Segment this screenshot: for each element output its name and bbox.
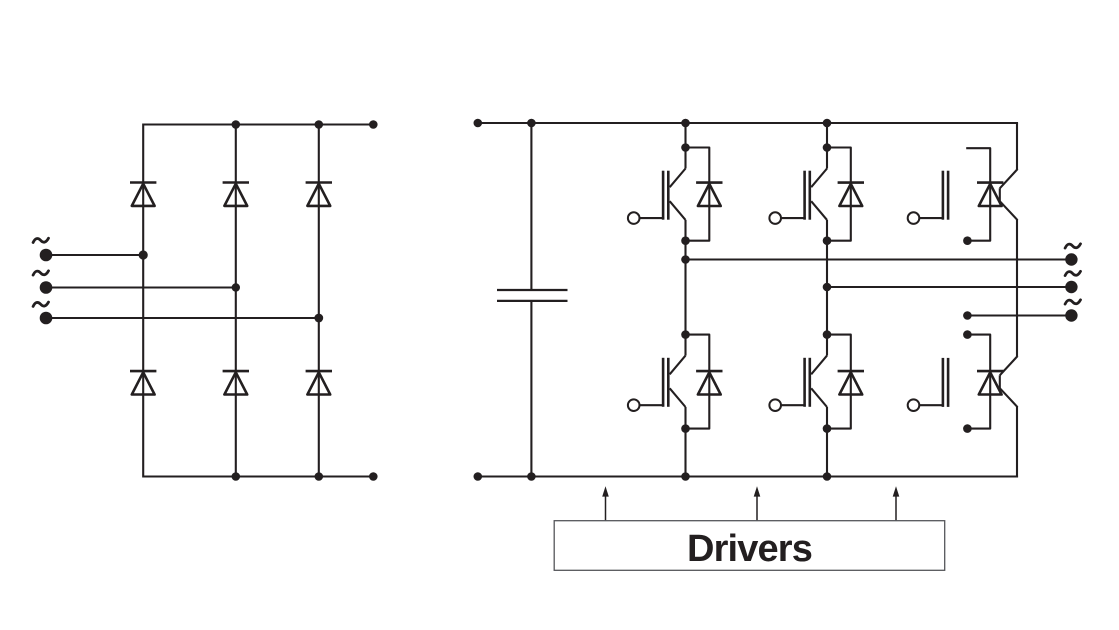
node: leg1 upper collector junction xyxy=(681,143,690,152)
drivers block box xyxy=(554,521,945,571)
diode D1 (rectifier upper) xyxy=(130,183,156,206)
IGBT Q5 (lower leg2) xyxy=(805,335,827,428)
wire: phase V output line xyxy=(827,286,1071,288)
IGBT Q6 (lower leg3, mirrored) xyxy=(943,356,1018,407)
diode D10 (antiparallel, lower leg1) xyxy=(696,371,722,394)
wire: leg2 top drop to collector xyxy=(826,123,828,148)
diode D9 (antiparallel, upper leg3) xyxy=(977,183,1003,206)
node: leg2 upper emitter junction xyxy=(823,236,832,245)
node: leg2 phase midpoint xyxy=(823,283,832,292)
node: rectifier DC+ output terminal xyxy=(369,120,378,129)
node: rectifier DC- output terminal xyxy=(369,472,378,481)
wire: leg2 midpoint down to lower collector xyxy=(826,287,828,335)
label: ~ phase W xyxy=(1065,300,1080,304)
wire: AC phase L1 input line xyxy=(46,254,143,256)
wire: leg1 midpoint down to lower collector xyxy=(684,260,686,335)
phase W output terminal xyxy=(1065,309,1077,321)
AC terminal L1 xyxy=(40,249,53,262)
diode D3 (rectifier upper) xyxy=(306,183,332,206)
node: junction L1 to left leg xyxy=(139,250,148,259)
wire: rectifier DC- bottom rail xyxy=(143,475,373,477)
AC terminal L3 xyxy=(40,312,53,325)
IGBT Q1 (upper leg1) xyxy=(663,148,685,241)
driver signal arrow 3 xyxy=(893,486,900,521)
node: leg2 upper collector junction xyxy=(823,143,832,152)
gate terminal of Q6 xyxy=(908,399,944,411)
gate terminal of Q5 xyxy=(769,399,805,411)
wire: collector stub upper leg3 xyxy=(966,148,990,241)
diode D2 (rectifier upper) xyxy=(223,183,249,206)
wire: freewheel branch upper leg1 xyxy=(686,148,710,241)
wire: freewheel branch upper leg2 xyxy=(827,148,851,241)
node: leg2 DC- junction xyxy=(823,472,832,481)
wire: leg3 rail drop to DC- (emitter Q6) xyxy=(1016,407,1018,478)
node: leg1 DC+ junction xyxy=(681,119,690,128)
node: leg2 lower emitter junction xyxy=(823,424,832,433)
node: bottom rail junction right leg xyxy=(315,472,324,481)
node: leg2 lower collector junction xyxy=(823,330,832,339)
node: capacitor to DC- rail xyxy=(527,472,536,481)
IGBT Q3 (upper leg3, mirrored) xyxy=(943,169,1018,220)
capacitor C1 plates xyxy=(497,290,568,301)
node: leg1 upper emitter junction xyxy=(681,236,690,245)
diode D7 (antiparallel, upper leg1) xyxy=(696,183,722,206)
node: lower leg3 collector stub terminal xyxy=(963,330,972,339)
node: lower leg3 emitter stub terminal xyxy=(963,424,972,433)
svg-text:Drivers: Drivers xyxy=(687,528,812,570)
wire: rectifier right leg vertical xyxy=(318,125,320,477)
diode D11 (antiparallel, lower leg2) xyxy=(838,371,864,394)
diode D5 (rectifier lower) xyxy=(223,371,249,394)
wire: phase U output line xyxy=(686,258,1072,260)
wire: inverter DC+ rail xyxy=(478,122,1018,124)
node: leg1 lower emitter junction xyxy=(681,424,690,433)
node: leg1 phase midpoint xyxy=(681,255,690,264)
diode D8 (antiparallel, upper leg2) xyxy=(838,183,864,206)
label: ~ AC symbol L2 xyxy=(33,271,48,275)
phase U output terminal xyxy=(1065,253,1077,265)
wire: leg2 emitter to midpoint xyxy=(826,241,828,287)
node: junction L2 to middle leg xyxy=(232,283,240,291)
node: junction L3 to right leg xyxy=(314,314,323,323)
gate terminal of Q4 xyxy=(628,399,664,411)
label: ~ AC symbol L3 xyxy=(33,302,48,306)
wire: collector stub lower leg3 xyxy=(967,335,990,429)
driver signal arrow 2 xyxy=(754,486,761,521)
gate terminal of Q2 xyxy=(769,212,805,224)
wire: leg1 top drop to collector xyxy=(684,123,686,148)
wire: leg1 emitter to DC- rail xyxy=(684,429,686,477)
wire: phase W output line xyxy=(967,314,1071,316)
node: bottom rail junction middle leg xyxy=(232,472,241,481)
gate terminal of Q1 xyxy=(628,212,664,224)
node: phase W tap xyxy=(963,311,972,320)
wire: AC phase L3 input line xyxy=(46,317,319,319)
node: leg2 DC+ junction xyxy=(823,119,832,128)
wire: leg3 rail upper-to-lower section xyxy=(1016,220,1018,356)
wire: leg1 emitter to midpoint xyxy=(684,241,686,260)
node: top rail junction middle leg xyxy=(232,120,241,129)
gate terminal of Q3 xyxy=(908,212,944,224)
driver signal arrow 1 xyxy=(602,486,609,521)
phase V output terminal xyxy=(1065,281,1077,293)
node: capacitor to DC+ rail xyxy=(527,119,536,128)
wire: rectifier left leg vertical xyxy=(142,124,144,478)
diode D4 (rectifier lower) xyxy=(130,371,156,394)
label: ~ phase U xyxy=(1065,244,1080,248)
node: leg1 DC- junction xyxy=(681,472,690,481)
IGBT Q4 (lower leg1) xyxy=(663,335,685,428)
diode D6 (rectifier lower) xyxy=(306,371,332,394)
node: leg1 lower collector junction xyxy=(681,330,690,339)
wire: AC phase L2 input line xyxy=(46,286,236,288)
wire: capacitor bottom lead xyxy=(530,301,532,477)
node: upper leg3 emitter stub terminal xyxy=(963,236,972,245)
node: top rail junction right leg xyxy=(315,120,324,129)
wire: rectifier DC+ top rail xyxy=(143,123,373,125)
label: ~ AC symbol L1 xyxy=(33,238,48,242)
wire: inverter DC- rail xyxy=(478,475,1018,477)
AC terminal L2 xyxy=(40,281,53,294)
node: DC+ rail left terminal xyxy=(474,119,483,128)
wire: freewheel branch lower leg1 xyxy=(686,335,710,429)
node: DC- rail left terminal xyxy=(474,472,483,481)
wire: capacitor top lead xyxy=(530,123,532,290)
wire: leg3 rail drop from DC+ (collector Q3) xyxy=(1016,123,1018,169)
label: ~ phase V xyxy=(1065,271,1080,275)
wire: leg2 emitter to DC- rail xyxy=(826,429,828,477)
wire: rectifier middle leg vertical xyxy=(235,125,237,477)
wire: freewheel branch lower leg2 xyxy=(827,335,851,429)
IGBT Q2 (upper leg2) xyxy=(805,148,827,241)
diode D12 (antiparallel, lower leg3) xyxy=(977,371,1003,394)
